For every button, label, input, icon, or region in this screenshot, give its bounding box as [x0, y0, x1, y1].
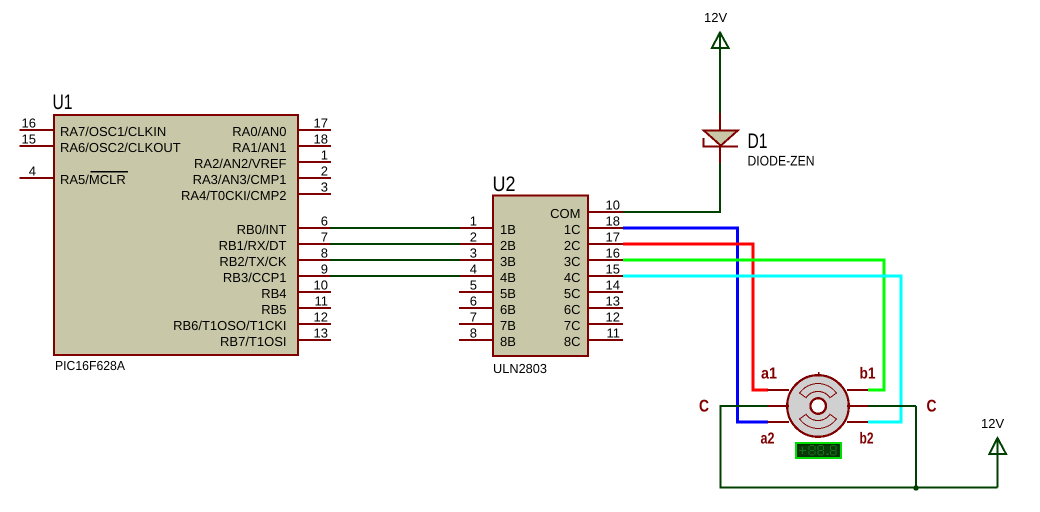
- wire U2 1C (pin18, blue) to motor a2: [623, 228, 768, 422]
- U2 pin 10 (COM) right stub: [550, 198, 623, 221]
- motor left pin C stub: [768, 405, 790, 407]
- svg-text:11: 11: [607, 326, 621, 341]
- U1 value label PIC16F628A: [55, 358, 125, 373]
- svg-text:4B: 4B: [500, 270, 516, 285]
- U2 pin 5 (5B) left stub: [459, 278, 516, 301]
- svg-text:12V: 12V: [704, 10, 727, 25]
- svg-text:5C: 5C: [564, 286, 581, 301]
- svg-text:16: 16: [22, 116, 36, 131]
- U1 pin 1 (RA2/AN2/VREF) right stub: [194, 148, 331, 171]
- svg-text:11: 11: [315, 294, 329, 309]
- svg-text:8B: 8B: [500, 334, 516, 349]
- svg-text:2C: 2C: [564, 238, 581, 253]
- wire U1 RB3 to U2 4B: [330, 275, 460, 277]
- U2 pin 12 (7C) right stub: [564, 310, 623, 333]
- wire D1 cathode to U2 COM pin 10: [623, 163, 721, 212]
- svg-text:10: 10: [314, 278, 328, 293]
- svg-text:12V: 12V: [981, 416, 1004, 431]
- U2 pin 16 (3C) right stub: [564, 246, 623, 269]
- motor top index tick: [818, 372, 820, 375]
- wire U1 RB2 to U2 3B: [330, 259, 460, 261]
- svg-text:18: 18: [606, 214, 620, 229]
- svg-text:8C: 8C: [564, 334, 581, 349]
- svg-text:2: 2: [470, 230, 477, 245]
- svg-text:17: 17: [314, 116, 328, 131]
- svg-text:1: 1: [470, 214, 477, 229]
- junction dot bottom rail: [913, 485, 919, 491]
- U2 pin 8 (8B) left stub: [459, 326, 516, 349]
- motor terminal label b1: [860, 366, 876, 383]
- svg-text:C: C: [699, 397, 709, 416]
- U2 pin 18 (1C) right stub: [564, 214, 623, 237]
- svg-text:a1: a1: [761, 366, 777, 383]
- svg-text:9: 9: [321, 262, 328, 277]
- motor left pin a2 stub: [768, 421, 790, 423]
- svg-text:7C: 7C: [564, 318, 581, 333]
- U1 pin 7 (RB1/RX/DT) right stub: [219, 230, 331, 253]
- svg-text:PIC16F628A: PIC16F628A: [55, 358, 125, 373]
- IC U2 ULN2803 body: [493, 195, 588, 355]
- svg-text:a2: a2: [761, 431, 775, 448]
- motor rotor arc top: [800, 384, 837, 398]
- svg-text:RB3/CCP1: RB3/CCP1: [223, 270, 287, 285]
- wire U1 RB1 to U2 2B: [330, 243, 460, 245]
- svg-text:12: 12: [606, 310, 620, 325]
- motor rpm display box: [796, 443, 841, 458]
- svg-text:15: 15: [606, 262, 620, 277]
- svg-text:6: 6: [321, 214, 328, 229]
- wire motor left C to bottom rail: [721, 406, 998, 487]
- motor body (stepper): [787, 375, 849, 437]
- U2 pin 14 (5C) right stub: [564, 278, 623, 301]
- U2 pin 1 (1B) left stub: [459, 214, 516, 237]
- svg-text:2: 2: [321, 164, 328, 179]
- U1 pin 4 (RA5/MCLR) left stub: [20, 164, 129, 187]
- svg-text:RB1/RX/DT: RB1/RX/DT: [219, 238, 287, 253]
- U2 pin 13 (6C) right stub: [564, 294, 623, 317]
- svg-text:U2: U2: [493, 173, 516, 196]
- svg-text:7: 7: [321, 230, 328, 245]
- svg-text:RA1/AN1: RA1/AN1: [232, 140, 286, 155]
- svg-text:7B: 7B: [500, 318, 516, 333]
- svg-text:16: 16: [606, 246, 620, 261]
- svg-text:4C: 4C: [564, 270, 581, 285]
- svg-text:RB6/T1OSO/T1CKI: RB6/T1OSO/T1CKI: [173, 318, 286, 333]
- motor rpm display digits +88.8: [799, 446, 836, 456]
- svg-text:RA6/OSC2/CLKOUT: RA6/OSC2/CLKOUT: [60, 140, 181, 155]
- diode D1 DIODE-ZEN (zener): [704, 113, 738, 163]
- svg-text:1B: 1B: [500, 222, 516, 237]
- wire U2 2C (pin17, red) to motor a1: [623, 244, 768, 390]
- U1 pin 8 (RB2/TX/CK) right stub: [219, 246, 331, 269]
- U2 pin 4 (4B) left stub: [459, 262, 516, 285]
- svg-text:8: 8: [321, 246, 328, 261]
- D1 value label DIODE-ZEN: [748, 153, 815, 169]
- svg-text:ULN2803: ULN2803: [493, 361, 547, 376]
- svg-text:RB2/TX/CK: RB2/TX/CK: [219, 254, 287, 269]
- U2 pin 17 (2C) right stub: [564, 230, 623, 253]
- motor right pin C stub: [847, 405, 868, 407]
- motor left pin a1 stub: [768, 389, 790, 391]
- U2 pin 6 (6B) left stub: [459, 294, 516, 317]
- svg-text:C: C: [927, 397, 937, 416]
- wire U1 RB0 to U2 1B: [330, 227, 460, 229]
- svg-text:7: 7: [470, 310, 477, 325]
- U1 pin 9 (RB3/CCP1) right stub: [223, 262, 331, 285]
- svg-text:3C: 3C: [564, 254, 581, 269]
- svg-text:3B: 3B: [500, 254, 516, 269]
- svg-text:2B: 2B: [500, 238, 516, 253]
- svg-text:RB0/INT: RB0/INT: [237, 222, 287, 237]
- svg-text:13: 13: [606, 294, 620, 309]
- U1 pin 13 (RB7/T1OSI) right stub: [220, 326, 331, 349]
- svg-text:18: 18: [314, 132, 328, 147]
- U1 pin 11 (RB5) right stub: [261, 294, 331, 317]
- motor common label C left: [699, 397, 709, 416]
- svg-text:RB7/T1OSI: RB7/T1OSI: [220, 334, 286, 349]
- svg-text:17: 17: [606, 230, 620, 245]
- svg-text:6: 6: [470, 294, 477, 309]
- wire U2 3C (pin16, green) to motor b1: [623, 260, 884, 390]
- U1 pin 17 (RA0/AN0) right stub: [232, 116, 331, 139]
- U1 pin 16 (RA7/OSC1/CLKIN) left stub: [20, 116, 167, 139]
- power symbol 12V (bottom right): [989, 438, 1006, 487]
- svg-text:4: 4: [29, 164, 36, 179]
- svg-text:13: 13: [314, 326, 328, 341]
- U1 pin 18 (RA1/AN1) right stub: [232, 132, 331, 155]
- svg-text:RA2/AN2/VREF: RA2/AN2/VREF: [194, 156, 287, 171]
- 12V label (bottom right): [981, 416, 1004, 431]
- svg-text:RB4: RB4: [261, 286, 286, 301]
- wire motor right C down to bottom rail: [868, 406, 916, 487]
- power symbol 12V (top): [712, 33, 729, 114]
- U2 reference label: [493, 173, 516, 196]
- motor terminal label a2: [761, 431, 775, 448]
- U1 reference label: [53, 91, 73, 114]
- svg-text:3: 3: [470, 246, 477, 261]
- U1 pin 15 (RA6/OSC2/CLKOUT) left stub: [20, 132, 181, 155]
- svg-text:D1: D1: [748, 130, 768, 153]
- D1 reference label: [748, 130, 768, 153]
- U2 pin 15 (4C) right stub: [564, 262, 623, 285]
- svg-text:1C: 1C: [564, 222, 581, 237]
- svg-text:6C: 6C: [564, 302, 581, 317]
- svg-text:10: 10: [606, 198, 620, 213]
- svg-text:b1: b1: [860, 366, 876, 383]
- svg-text:COM: COM: [550, 206, 580, 221]
- wire U2 4C (pin15, cyan) to motor b2: [623, 276, 901, 422]
- U1 pin 3 (RA4/T0CKI/CMP2) right stub: [181, 180, 331, 203]
- 12V label (top): [704, 10, 727, 25]
- svg-text:1: 1: [321, 148, 328, 163]
- U1 pin 6 (RB0/INT) right stub: [237, 214, 331, 237]
- svg-text:3: 3: [321, 180, 328, 195]
- motor right pin b1 stub: [847, 389, 868, 391]
- U2 pin 2 (2B) left stub: [459, 230, 516, 253]
- svg-text:15: 15: [22, 132, 36, 147]
- U2 pin 11 (8C) right stub: [564, 326, 623, 349]
- svg-text:DIODE-ZEN: DIODE-ZEN: [748, 153, 815, 169]
- motor hub: [810, 398, 826, 414]
- U2 value label ULN2803: [493, 361, 547, 376]
- IC U1 PIC16F628A body: [54, 115, 298, 355]
- svg-text:5B: 5B: [500, 286, 516, 301]
- svg-text:RA4/T0CKI/CMP2: RA4/T0CKI/CMP2: [181, 188, 286, 203]
- svg-text:RA5/MCLR: RA5/MCLR: [60, 172, 126, 187]
- svg-text:8: 8: [470, 326, 477, 341]
- U2 pin 7 (7B) left stub: [459, 310, 516, 333]
- U1 pin 10 (RB4) right stub: [261, 278, 331, 301]
- svg-text:12: 12: [314, 310, 328, 325]
- motor right pin b2 stub: [847, 421, 868, 423]
- motor terminal label b2: [860, 431, 874, 448]
- svg-text:RB5: RB5: [261, 302, 286, 317]
- U1 pin 12 (RB6/T1OSO/T1CKI) right stub: [173, 310, 331, 333]
- motor common label C right: [927, 397, 937, 416]
- U1 pin 2 (RA3/AN3/CMP1) right stub: [193, 164, 331, 187]
- U2 pin 3 (3B) left stub: [459, 246, 516, 269]
- svg-text:RA3/AN3/CMP1: RA3/AN3/CMP1: [193, 172, 287, 187]
- svg-text:b2: b2: [860, 431, 874, 448]
- svg-text:5: 5: [470, 278, 477, 293]
- svg-text:14: 14: [606, 278, 620, 293]
- svg-text:4: 4: [470, 262, 477, 277]
- svg-text:RA0/AN0: RA0/AN0: [232, 124, 286, 139]
- svg-text:U1: U1: [53, 91, 73, 114]
- svg-text:6B: 6B: [500, 302, 516, 317]
- motor rotor arc bottom: [800, 414, 837, 428]
- svg-text:RA7/OSC1/CLKIN: RA7/OSC1/CLKIN: [60, 124, 166, 139]
- motor terminal label a1: [761, 366, 777, 383]
